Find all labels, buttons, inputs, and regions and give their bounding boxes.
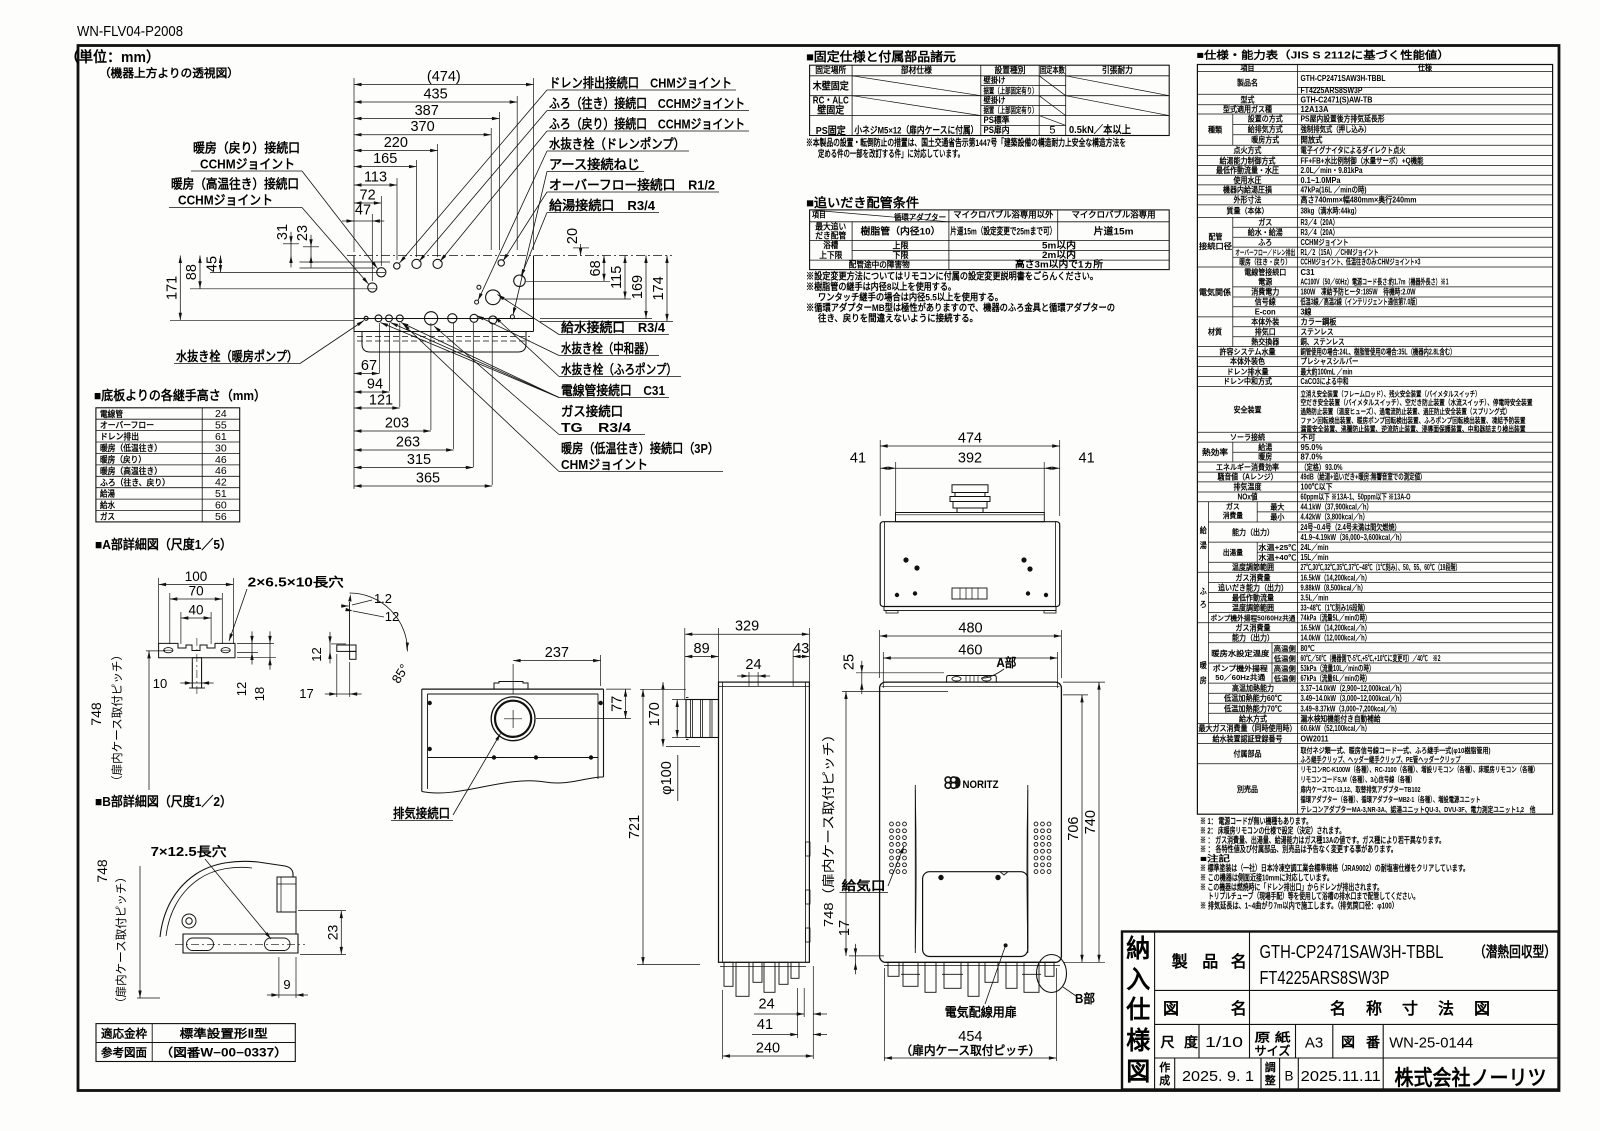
- svg-text:68: 68: [588, 260, 604, 276]
- svg-text:高温側: 高温側: [1274, 644, 1296, 653]
- svg-text:開放式: 開放式: [1301, 134, 1323, 144]
- svg-text:調: 調: [1265, 1060, 1276, 1074]
- svg-text:113: 113: [364, 170, 387, 186]
- dim 706: [1081, 695, 1083, 962]
- svg-text:（扉内ケース取付ピッチ）: （扉内ケース取付ピッチ）: [900, 1043, 1040, 1058]
- svg-text:暖房（低温往き）接続口（3P）: 暖房（低温往き）接続口（3P）: [561, 441, 719, 456]
- front bottom pipes: [884, 965, 1060, 967]
- svg-text:外形寸法: 外形寸法: [1233, 195, 1262, 205]
- svg-text:給水装置認証登録番号: 給水装置認証登録番号: [1213, 733, 1283, 743]
- svg-text:24: 24: [759, 997, 775, 1013]
- NORITZ logo: [945, 777, 956, 788]
- svg-text:(474): (474): [427, 69, 461, 85]
- dim 47: [354, 220, 372, 222]
- right vertical dims 68 115 169 174: [603, 256, 605, 282]
- svg-text:温度調節範囲: 温度調節範囲: [1232, 603, 1274, 613]
- svg-text:CCHMジョイント: CCHMジョイント: [200, 157, 295, 172]
- svg-text:給湯能力制御方式: 給湯能力制御方式: [1220, 155, 1276, 165]
- svg-text:ドレン中和方式: ドレン中和方式: [1223, 376, 1272, 386]
- svg-text:FT4225ARS8SW3P: FT4225ARS8SW3P: [1260, 968, 1390, 988]
- svg-text:能力（出力）: 能力（出力）: [1232, 527, 1274, 537]
- svg-text:不可: 不可: [1301, 433, 1316, 442]
- dim 10: [192, 682, 201, 684]
- svg-text:最低作動流量・水圧: 最低作動流量・水圧: [1216, 165, 1279, 175]
- svg-text:12: 12: [309, 647, 324, 661]
- svg-text:41: 41: [757, 1017, 773, 1033]
- svg-text:80℃: 80℃: [1301, 644, 1315, 653]
- svg-text:24L／min: 24L／min: [1301, 542, 1329, 552]
- B bracket hood: [160, 861, 293, 937]
- svg-text:115: 115: [609, 266, 625, 289]
- svg-text:44.1kW（37,900kcal／h）: 44.1kW（37,900kcal／h）: [1301, 502, 1373, 512]
- svg-text:41: 41: [850, 451, 866, 467]
- dim 170: [662, 682, 664, 746]
- svg-text:リモコンコードS,M（各種）、3心信号線（各種）: リモコンコードS,M（各種）、3心信号線（各種）: [1301, 774, 1416, 784]
- exhaust connection circle: [491, 697, 535, 741]
- bottom row ports: [364, 316, 368, 320]
- svg-text:壁掛け: 壁掛け: [984, 95, 1006, 105]
- B base plate: [183, 934, 298, 953]
- svg-text:カラー鋼板: カラー鋼板: [1301, 316, 1338, 326]
- svg-text:強制排気式（押し込み）: 強制排気式（押し込み）: [1301, 124, 1371, 134]
- svg-text:漏水検知機能付き自動補給: 漏水検知機能付き自動補給: [1301, 713, 1382, 723]
- svg-text:作: 作: [1159, 1060, 1170, 1074]
- svg-text:33~48℃（1℃刻み16段階）: 33~48℃（1℃刻み16段階）: [1301, 603, 1369, 613]
- svg-text:41: 41: [1079, 451, 1095, 467]
- svg-text:10: 10: [153, 676, 167, 691]
- svg-text:エネルギー消費効率: エネルギー消費効率: [1216, 462, 1279, 472]
- svg-text:220: 220: [384, 135, 408, 151]
- A dims 100 70 40: [159, 584, 234, 586]
- dim 721: [642, 689, 644, 964]
- svg-text:ガス接続口: ガス接続口: [561, 404, 623, 419]
- svg-text:R3／4（20A）: R3／4（20A）: [1301, 217, 1339, 227]
- svg-text:67: 67: [361, 358, 377, 374]
- svg-text:図: 図: [1341, 1035, 1355, 1050]
- svg-text:マイクロバブル浴専用: マイクロバブル浴専用: [1072, 210, 1156, 220]
- B bolt: [182, 914, 196, 928]
- svg-text:2×6.5×10長穴: 2×6.5×10長穴: [248, 575, 345, 590]
- svg-text:項目: 項目: [812, 211, 826, 220]
- svg-text:4.42kW（3,800kcal／h）: 4.42kW（3,800kcal／h）: [1301, 512, 1369, 522]
- svg-text:9.88kW（8,500kcal／h）: 9.88kW（8,500kcal／h）: [1301, 582, 1367, 592]
- svg-text:42: 42: [215, 477, 227, 489]
- svg-text:OW2011: OW2011: [1301, 733, 1329, 743]
- svg-text:過熱防止装置（温度ヒューズ）、過電流防止装置、過圧防止安全装: 過熱防止装置（温度ヒューズ）、過電流防止装置、過圧防止安全装置（スプリング式）: [1300, 406, 1511, 416]
- svg-text:使用水圧: 使用水圧: [1233, 175, 1262, 185]
- svg-text:ポンプ機外揚程: ポンプ機外揚程: [1213, 664, 1269, 673]
- svg-text:CCHMジョイント、低温往きのみ:CHMジョイント×3: CCHMジョイント、低温往きのみ:CHMジョイント×3: [1301, 257, 1421, 267]
- svg-text:ガス: ガス: [1226, 501, 1240, 511]
- svg-text:電線管: 電線管: [100, 408, 123, 419]
- svg-text:水温+25℃: 水温+25℃: [1257, 543, 1297, 552]
- svg-text:水抜き栓（ふろポンプ）: 水抜き栓（ふろポンプ）: [561, 362, 677, 377]
- svg-text:61: 61: [215, 431, 227, 443]
- svg-text:テレコンアダプターMA-3,NR-3A、認湯ユニットQU-3: テレコンアダプターMA-3,NR-3A、認湯ユニットQU-3、DVU-3F、電力…: [1301, 804, 1536, 814]
- svg-text:暖房（高温往き）接続口: 暖房（高温往き）接続口: [171, 177, 299, 192]
- svg-text:46: 46: [215, 465, 227, 477]
- svg-text:23: 23: [295, 225, 311, 241]
- svg-text:（扉内ケース取付ピッチ）: （扉内ケース取付ピッチ）: [114, 871, 128, 1009]
- svg-text:FT4225ARS8SW3P: FT4225ARS8SW3P: [1301, 85, 1363, 95]
- svg-text:仕: 仕: [1125, 996, 1150, 1024]
- dim 9: [279, 994, 296, 996]
- dim 329: [685, 633, 810, 635]
- svg-text:（図番W−00−0337）: （図番W−00−0337）: [160, 1046, 288, 1060]
- dim 41 392 41: [880, 467, 1059, 469]
- svg-text:高温側: 高温側: [1274, 664, 1296, 673]
- svg-text:1/10: 1/10: [1205, 1034, 1243, 1051]
- svg-text:納: 納: [1126, 934, 1150, 963]
- svg-text:様: 様: [1126, 1027, 1151, 1055]
- svg-text:水温+40℃: 水温+40℃: [1257, 553, 1297, 562]
- svg-text:点火方式: 点火方式: [1234, 145, 1262, 155]
- svg-text:15L／min: 15L／min: [1301, 552, 1329, 562]
- svg-text:仕様: 仕様: [1417, 63, 1433, 73]
- svg-text:本体外装色: 本体外装色: [1230, 356, 1265, 366]
- svg-text:図: 図: [1126, 1058, 1150, 1086]
- svg-text:169: 169: [630, 275, 646, 299]
- svg-text:AC100V（50／60Hz）電源コード長さ:約1.7m（機: AC100V（50／60Hz）電源コード長さ:約1.7m（機器外長さ）※1: [1301, 277, 1449, 287]
- svg-text:ふろ継手クリップ、ヘッダー継手クリップ、PE管ヘッダークリッ: ふろ継手クリップ、ヘッダー継手クリップ、PE管ヘッダークリップ: [1301, 754, 1461, 764]
- svg-text:参考図面: 参考図面: [100, 1046, 147, 1060]
- svg-text:53kPa（流量10L／minの時）: 53kPa（流量10L／minの時）: [1301, 663, 1375, 673]
- svg-text:接続口径: 接続口径: [1199, 241, 1232, 251]
- svg-text:暖房: 暖房: [1258, 452, 1272, 462]
- svg-text:ガス: ガス: [1258, 217, 1272, 227]
- svg-text:■B部詳細図（尺度1／2）: ■B部詳細図（尺度1／2）: [95, 794, 232, 809]
- A bracket stem: [192, 658, 201, 688]
- svg-text:16.5kW（14,200kcal／h）: 16.5kW（14,200kcal／h）: [1301, 572, 1371, 582]
- fixing table grid: [810, 65, 1170, 135]
- svg-text:ふろ（往き）接続口 CCHMジョイント: ふろ（往き）接続口 CCHMジョイント: [549, 96, 745, 111]
- svg-text:図: 図: [1474, 1000, 1490, 1018]
- svg-text:PS標準: PS標準: [984, 114, 1010, 125]
- svg-text:2025. 9. 1: 2025. 9. 1: [1182, 1068, 1254, 1085]
- rear view top tab: [494, 682, 528, 690]
- spec table vertical dividers: [1232, 114, 1234, 145]
- svg-text:NORITZ: NORITZ: [963, 779, 999, 791]
- svg-text:（機器上方よりの透視図）: （機器上方よりの透視図）: [99, 66, 239, 80]
- svg-text:適応金枠: 適応金枠: [101, 1027, 147, 1041]
- svg-text:信号線: 信号線: [1255, 297, 1276, 307]
- svg-text:給湯: 給湯: [100, 488, 115, 499]
- svg-text:72: 72: [360, 188, 376, 204]
- svg-text:55: 55: [215, 420, 227, 432]
- svg-text:引張耐力: 引張耐力: [1102, 65, 1133, 75]
- svg-text:定める件の一部を改訂する件」に対応しています。: 定める件の一部を改訂する件」に対応しています。: [817, 148, 964, 160]
- svg-text:給水接続口 R3/4: 給水接続口 R3/4: [561, 320, 666, 335]
- reheating header: [810, 210, 949, 222]
- svg-text:14.0kW（12,000kcal／h）: 14.0kW（12,000kcal／h）: [1301, 633, 1371, 643]
- svg-text:100: 100: [185, 569, 208, 584]
- svg-text:浴槽: 浴槽: [823, 240, 838, 250]
- fixing table diagonals: [852, 76, 981, 96]
- top dim extension lines: [533, 78, 535, 250]
- svg-text:47: 47: [355, 203, 371, 219]
- svg-text:88: 88: [184, 264, 200, 280]
- A detail 748 pitch dim: [148, 651, 150, 790]
- dim 77 rear: [625, 689, 627, 718]
- title block frame: [1122, 932, 1559, 1090]
- svg-text:（扉内ケース取付ピッチ）: （扉内ケース取付ピッチ）: [110, 649, 124, 787]
- top view unit outline: [347, 255, 672, 257]
- svg-text:安全装置: 安全装置: [1234, 405, 1262, 415]
- svg-text:24号~0.4号（2.4号未満は間欠燃焼）: 24号~0.4号（2.4号未満は間欠燃焼）: [1301, 522, 1401, 532]
- svg-text:小ネジM5×12（扉内ケースに付属）: 小ネジM5×12（扉内ケースに付属）: [854, 125, 979, 137]
- svg-text:315: 315: [407, 452, 431, 468]
- svg-text:給湯接続口 R3/4: 給湯接続口 R3/4: [549, 198, 656, 213]
- svg-text:立消え安全装置（フレームロッド）、残火安全装置（バイメタルス: 立消え安全装置（フレームロッド）、残火安全装置（バイメタルスイッチ）: [1301, 389, 1481, 399]
- svg-text:721: 721: [627, 815, 643, 839]
- svg-text:203: 203: [385, 416, 409, 432]
- svg-text:暖房（高温往き）: 暖房（高温往き）: [100, 465, 162, 476]
- side view bottom pipes: [724, 962, 733, 986]
- svg-text:取付ネジ類一式、暖房信号線コード一式、ふろ継手一式(φ10樹: 取付ネジ類一式、暖房信号線コード一式、ふろ継手一式(φ10樹脂管用): [1301, 745, 1491, 755]
- svg-text:CaCO3による中和: CaCO3による中和: [1301, 376, 1349, 386]
- svg-text:46: 46: [215, 454, 227, 466]
- svg-text:固定場所: 固定場所: [815, 65, 846, 75]
- svg-text:60: 60: [215, 500, 227, 512]
- svg-text:整: 整: [1264, 1073, 1276, 1087]
- svg-text:許容システム水量: 許容システム水量: [1220, 346, 1276, 356]
- svg-text:740: 740: [1083, 810, 1099, 834]
- svg-text:263: 263: [396, 435, 420, 451]
- svg-text:オーバーフロー／ドレン排出: オーバーフロー／ドレン排出: [1235, 248, 1295, 257]
- svg-text:R3／4（20A）: R3／4（20A）: [1301, 227, 1339, 237]
- svg-text:部材仕様: 部材仕様: [901, 65, 932, 75]
- front view body: [880, 682, 1062, 962]
- svg-text:ドレン排出接続口 CHMジョイント: ドレン排出接続口 CHMジョイント: [549, 76, 732, 91]
- top view lid: [896, 513, 1045, 522]
- A clip detail: [349, 602, 351, 651]
- svg-text:出湯量: 出湯量: [1223, 547, 1243, 557]
- svg-text:循環アダプター（各種）、循環アダプターMB2-1（各種）、増: 循環アダプター（各種）、循環アダプターMB2-1（各種）、増設電源ユニット: [1301, 794, 1481, 804]
- svg-text:25: 25: [842, 654, 858, 670]
- svg-text:電線管接続口 C31: 電線管接続口 C31: [561, 383, 665, 398]
- svg-text:7×12.5長穴: 7×12.5長穴: [151, 844, 228, 859]
- svg-text:オーバーフロー: オーバーフロー: [100, 420, 154, 430]
- svg-text:だき配管: だき配管: [815, 231, 846, 241]
- svg-text:27℃,30℃,32℃,35℃,37℃~48℃（1℃刻み）、: 27℃,30℃,32℃,35℃,37℃~48℃（1℃刻み）、50、55、60℃（…: [1301, 562, 1461, 572]
- svg-text:77: 77: [610, 696, 626, 712]
- side view body: [719, 682, 810, 962]
- dim 474 top: [880, 445, 1059, 447]
- svg-text:消費量: 消費量: [1223, 510, 1243, 520]
- svg-text:ドレン排水量: ドレン排水量: [1227, 366, 1269, 376]
- svg-text:49dB（給湯+追いだき+暖房:無響音室での測定値）: 49dB（給湯+追いだき+暖房:無響音室での測定値）: [1301, 472, 1426, 482]
- svg-text:50／60Hz共通: 50／60Hz共通: [1215, 673, 1266, 682]
- side ext lines: [684, 628, 686, 700]
- svg-text:木壁固定: 木壁固定: [812, 80, 849, 93]
- svg-text:3線: 3線: [1301, 307, 1312, 317]
- svg-text:熱効率: 熱効率: [1202, 447, 1228, 457]
- svg-text:標準設置形Ⅱ型: 標準設置形Ⅱ型: [180, 1027, 269, 1041]
- B-part circle: [1037, 955, 1067, 993]
- svg-text:47kPa(16L ／minの時): 47kPa(16L ／minの時): [1301, 185, 1367, 195]
- svg-text:暖房（低温往き）: 暖房（低温往き）: [100, 442, 162, 453]
- svg-text:片道15m（設定変更で25mまで可）: 片道15m（設定変更で25mまで可）: [950, 226, 1056, 238]
- svg-text:B部: B部: [1075, 991, 1095, 1006]
- top view front pan: [362, 332, 526, 353]
- svg-text:3.49~14.0kW（3,000~12,000kcal／h: 3.49~14.0kW（3,000~12,000kcal／h）: [1301, 693, 1406, 703]
- svg-text:原 紙: 原 紙: [1255, 1030, 1291, 1045]
- svg-text:電子イグナイタによるダイレクト点火: 電子イグナイタによるダイレクト点火: [1301, 145, 1407, 155]
- svg-text:製品名: 製品名: [1236, 78, 1258, 88]
- dim 454: [884, 1057, 1056, 1059]
- svg-text:PS固定: PS固定: [816, 124, 846, 137]
- svg-text:TG R3/4: TG R3/4: [561, 420, 632, 435]
- svg-text:据置（上部固定有り）: 据置（上部固定有り）: [984, 85, 1038, 95]
- svg-text:38kg（満水時:44kg）: 38kg（満水時:44kg）: [1301, 206, 1361, 216]
- svg-text:（単位：mm）: （単位：mm）: [65, 48, 160, 66]
- svg-text:暖房（戻り）接続口: 暖房（戻り）接続口: [193, 141, 300, 156]
- svg-text:名: 名: [1330, 999, 1346, 1018]
- svg-text:CHMジョイント: CHMジョイント: [561, 457, 648, 472]
- svg-text:95.0%: 95.0%: [1301, 442, 1323, 452]
- svg-text:入: 入: [1126, 966, 1150, 994]
- svg-text:高さ740mm×幅480mm×奥行240mm: 高さ740mm×幅480mm×奥行240mm: [1301, 195, 1417, 205]
- svg-text:消費電力: 消費電力: [1251, 287, 1279, 297]
- svg-text:マイクロバブル浴専用以外: マイクロバブル浴専用以外: [953, 210, 1053, 220]
- dim 12 slanted: [353, 611, 384, 617]
- svg-text:30: 30: [215, 442, 227, 454]
- svg-text:16.5kW（14,200kcal／h）: 16.5kW（14,200kcal／h）: [1301, 623, 1371, 633]
- svg-text:低温側: 低温側: [1273, 674, 1296, 683]
- svg-text:電気配線用扉: 電気配線用扉: [945, 1005, 1017, 1020]
- top exterior view body: [880, 522, 1059, 607]
- svg-text:項目: 項目: [1241, 64, 1255, 73]
- svg-text:給気口: 給気口: [842, 878, 886, 893]
- svg-text:低温加熱能力60℃: 低温加熱能力60℃: [1223, 693, 1282, 703]
- svg-text:サイズ: サイズ: [1255, 1043, 1291, 1058]
- front louvers right: [1034, 822, 1038, 826]
- svg-text:56: 56: [215, 511, 227, 523]
- side exhaust pipe: [686, 700, 719, 738]
- svg-text:片道15m: 片道15m: [1094, 226, 1134, 238]
- svg-text:最低作動流量: 最低作動流量: [1232, 592, 1274, 602]
- dim 24 side: [749, 675, 758, 677]
- svg-text:474: 474: [958, 431, 982, 447]
- frame reference table: [96, 1024, 295, 1062]
- svg-text:排気口: 排気口: [1255, 327, 1276, 337]
- svg-text:暖房方式: 暖房方式: [1251, 134, 1279, 144]
- spec table frame: [1197, 65, 1552, 815]
- svg-text:24: 24: [215, 408, 227, 420]
- svg-text:暖房（往き・戻り）: 暖房（往き・戻り）: [1239, 258, 1291, 267]
- svg-text:748（扉内ケース取付ピッチ）: 748（扉内ケース取付ピッチ）: [821, 727, 836, 927]
- svg-text:PS屋内設置後方排気延長形: PS屋内設置後方排気延長形: [1301, 114, 1385, 124]
- svg-text:最小: 最小: [1270, 512, 1284, 522]
- A bracket shape: [159, 643, 235, 657]
- svg-text:748: 748: [94, 859, 110, 883]
- svg-text:上限: 上限: [893, 240, 909, 251]
- svg-text:■A部詳細図（尺度1／5）: ■A部詳細図（尺度1／5）: [95, 537, 232, 552]
- top dim stack: [354, 84, 534, 86]
- svg-text:41.9~4.19kW（36,000~3,600kcal／h: 41.9~4.19kW（36,000~3,600kcal／h）: [1301, 532, 1406, 542]
- svg-text:20: 20: [565, 228, 581, 244]
- svg-text:水抜き栓（暖房ポンプ）: 水抜き栓（暖房ポンプ）: [176, 349, 298, 364]
- svg-text:67kPa（流量6L／minの時）: 67kPa（流量6L／minの時）: [1301, 673, 1371, 683]
- svg-text:壁掛け: 壁掛け: [984, 75, 1006, 85]
- svg-text:R1／2（15A）／CHMジョイント: R1／2（15A）／CHMジョイント: [1301, 247, 1379, 257]
- svg-text:3.5L／min: 3.5L／min: [1301, 592, 1329, 602]
- svg-text:■追いだき配管条件: ■追いだき配管条件: [806, 195, 920, 210]
- svg-text:空だき安全装置（バイメタルスイッチ）、空だき防止装置（水流ス: 空だき安全装置（バイメタルスイッチ）、空だき防止装置（水流スイッチ）、停電時安全…: [1301, 397, 1533, 407]
- svg-text:GTH-C2471(S)AW-TB: GTH-C2471(S)AW-TB: [1301, 94, 1373, 104]
- dim 43: [793, 656, 809, 658]
- rear view duct body: [422, 688, 604, 690]
- svg-text:名: 名: [1231, 999, 1247, 1018]
- svg-text:製: 製: [1171, 952, 1188, 971]
- svg-text:ソーラ接続: ソーラ接続: [1230, 432, 1265, 442]
- svg-text:23: 23: [324, 925, 340, 941]
- svg-text:748: 748: [88, 702, 104, 726]
- svg-text:435: 435: [423, 87, 447, 103]
- svg-text:ガス: ガス: [100, 511, 115, 522]
- 85 degree arc: [350, 593, 408, 651]
- svg-text:番: 番: [1365, 1034, 1381, 1050]
- svg-text:■固定仕様と付属部品諸元: ■固定仕様と付属部品諸元: [806, 49, 957, 64]
- svg-text:17: 17: [837, 920, 853, 936]
- svg-text:成: 成: [1159, 1073, 1170, 1087]
- svg-text:※ 排気延長は、1~4曲がり7m以内で施工します。（排気筒口: ※ 排気延長は、1~4曲がり7m以内で施工します。（排気筒口径：φ100）: [1200, 901, 1398, 911]
- svg-text:NOx値: NOx値: [1238, 492, 1258, 502]
- top view center bracket: [952, 588, 987, 599]
- svg-text:付属部品: 付属部品: [1234, 749, 1262, 759]
- svg-text:GTH-CP2471SAW3H-TBBL: GTH-CP2471SAW3H-TBBL: [1260, 942, 1444, 962]
- svg-text:設置の方式: 設置の方式: [1248, 114, 1283, 124]
- svg-text:43: 43: [793, 641, 809, 657]
- svg-text:CCHMジョイント: CCHMジョイント: [1301, 238, 1349, 247]
- svg-text:365: 365: [416, 471, 440, 487]
- svg-text:銅、ステンレス: 銅、ステンレス: [1301, 336, 1345, 346]
- svg-text:18: 18: [252, 687, 267, 701]
- dim 740: [1098, 682, 1100, 962]
- svg-text:A部: A部: [996, 655, 1016, 670]
- svg-text:87.0%: 87.0%: [1301, 452, 1323, 462]
- svg-text:房: 房: [1200, 675, 1207, 685]
- svg-text:最大約100mL ／min: 最大約100mL ／min: [1301, 366, 1353, 376]
- svg-text:※樹脂管の継手は内径8以上を使用する。: ※樹脂管の継手は内径8以上を使用する。: [806, 281, 956, 293]
- svg-text:PS扉内: PS扉内: [984, 124, 1010, 135]
- dim 1.2: [341, 605, 349, 607]
- svg-text:配管途中の障害物: 配管途中の障害物: [849, 260, 910, 270]
- svg-text:型式適用ガス種: 型式適用ガス種: [1223, 104, 1272, 114]
- svg-text:低温側: 低温側: [1273, 654, 1296, 663]
- svg-text:アース接続ねじ: アース接続ねじ: [549, 157, 640, 172]
- dim phi100: [676, 700, 678, 738]
- svg-text:170: 170: [647, 702, 663, 726]
- svg-text:能力（出力）: 能力（出力）: [1232, 633, 1274, 643]
- svg-text:FF+FB+水比例制御（水量サーボ）+Q機能: FF+FB+水比例制御（水量サーボ）+Q機能: [1301, 155, 1424, 165]
- svg-text:240: 240: [756, 1041, 780, 1057]
- svg-text:ステンレス: ステンレス: [1301, 328, 1334, 337]
- svg-text:387: 387: [415, 103, 439, 119]
- svg-text:排気接続口: 排気接続口: [393, 806, 450, 821]
- svg-text:（潜熱回収型）: （潜熱回収型）: [1474, 943, 1556, 961]
- svg-text:3.37~14.0kW（2,900~12,000kcal／h: 3.37~14.0kW（2,900~12,000kcal／h）: [1301, 683, 1406, 693]
- svg-text:（定格）93.0%: （定格）93.0%: [1301, 462, 1343, 472]
- svg-text:■仕様・能力表（JIS S 2112に基づく性能値）: ■仕様・能力表（JIS S 2112に基づく性能値）: [1197, 49, 1450, 62]
- svg-text:40: 40: [188, 603, 203, 618]
- svg-text:図: 図: [1163, 1000, 1179, 1018]
- dim 12 left of clip: [329, 644, 331, 652]
- svg-text:ろ: ろ: [1200, 600, 1207, 609]
- svg-text:高さ3m以内で1ヵ所: 高さ3m以内で1ヵ所: [1015, 259, 1104, 271]
- svg-text:称: 称: [1366, 999, 1382, 1018]
- svg-text:460: 460: [958, 643, 982, 659]
